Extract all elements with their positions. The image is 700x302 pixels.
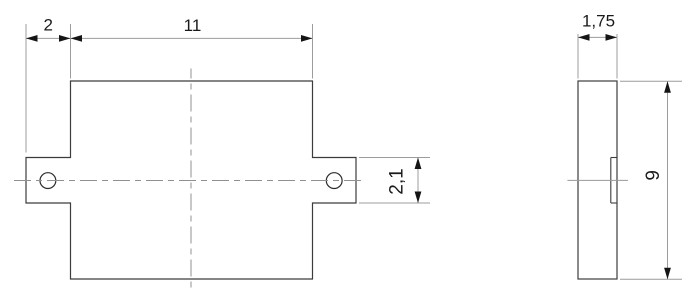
extension line left (dim 2) — [25, 24, 27, 153]
side view outline — [578, 81, 617, 279]
side view horizontal center line — [567, 179, 628, 181]
dimension line 9 — [667, 81, 669, 279]
right hole — [326, 173, 342, 189]
svg-text:11: 11 — [184, 16, 202, 35]
horizontal center line front view — [14, 180, 362, 182]
arrowhead dim11 right — [301, 35, 313, 42]
svg-text:2: 2 — [43, 16, 52, 35]
extension line tab top (dim 2,1) — [359, 157, 430, 159]
svg-text:2,1: 2,1 — [387, 168, 408, 194]
front view outline — [26, 81, 356, 279]
extension line body left (dim 2 / 11) — [70, 24, 72, 79]
side view tab profile top — [611, 157, 617, 159]
side view tab profile bottom — [611, 202, 617, 204]
arrowhead dim2,1 top — [415, 158, 422, 170]
extension line side right (dim 1,75) — [616, 34, 618, 79]
extension line body right (dim 11) — [312, 24, 314, 79]
extension line side top (dim 9) — [620, 80, 682, 82]
extension line tab bottom (dim 2,1) — [359, 202, 430, 204]
extension line side left (dim 1,75) — [577, 34, 579, 79]
arrowhead dim11 left — [71, 35, 83, 42]
svg-text:9: 9 — [643, 170, 664, 181]
arrowhead dim9 bottom — [664, 268, 671, 280]
svg-text:1,75: 1,75 — [582, 12, 615, 31]
left hole — [40, 173, 56, 189]
dimension line 1,75 — [578, 36, 617, 38]
arrowhead dim9 top — [664, 81, 671, 93]
arrowhead dim2 left — [26, 35, 38, 42]
arrowhead dim1,75 right — [606, 34, 618, 41]
dimension line top (2 and 11) — [26, 37, 313, 39]
arrowhead dim2 right — [59, 35, 71, 42]
arrowhead dim1,75 left — [578, 34, 590, 41]
arrowhead dim2,1 bottom — [415, 192, 422, 204]
side view tab profile vertical — [610, 158, 612, 204]
extension line side bottom (dim 9) — [620, 278, 682, 280]
vertical center line front view — [190, 69, 192, 292]
dimension line 2,1 — [417, 158, 419, 204]
